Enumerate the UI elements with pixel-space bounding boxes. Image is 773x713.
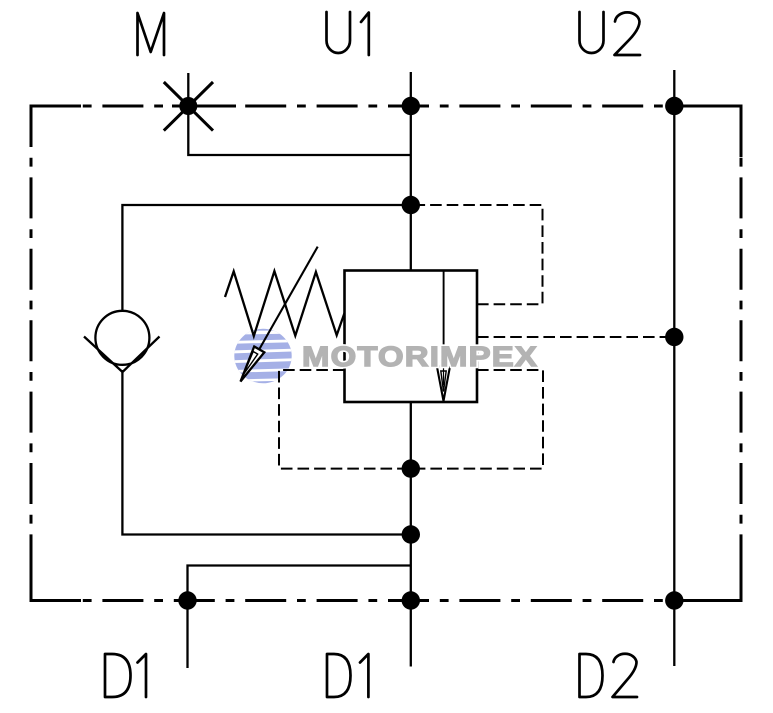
svg-text:MOTORIMPEX: MOTORIMPEX	[302, 341, 538, 372]
